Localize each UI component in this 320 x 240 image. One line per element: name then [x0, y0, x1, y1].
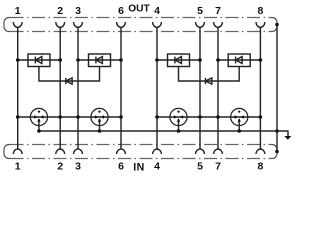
diode V6 (right link): [205, 78, 211, 84]
earth ground symbol: [284, 136, 291, 140]
pin number labels bottom: [15, 161, 264, 173]
svg-text:7: 7: [215, 5, 221, 17]
suppressor diode box V4 (pins 7-8): [228, 54, 250, 67]
junction dots row y=60: [16, 58, 262, 62]
wire line 8 (pin 8 through): [259, 27, 261, 149]
wire line 7 (pin 7 through): [217, 27, 219, 149]
svg-text:1: 1: [15, 5, 21, 17]
svg-text:3: 3: [75, 161, 81, 173]
terminal socket 4 top: [153, 22, 162, 27]
svg-text:2: 2: [57, 161, 63, 173]
svg-text:3: 3: [75, 5, 81, 17]
suppressor diode box V3 (pins 4-5): [168, 54, 190, 67]
terminal socket 2 bottom: [56, 149, 65, 154]
wire line 2 (pin 2 through): [59, 27, 61, 149]
svg-text:7: 7: [215, 161, 221, 173]
connector housing OUT (top dash-dot stadium): [4, 18, 277, 32]
svg-text:OUT: OUT: [128, 4, 150, 15]
connector housing IN (bottom dash-dot stadium): [4, 145, 277, 159]
terminal socket 2 top: [56, 22, 65, 27]
svg-text:6: 6: [118, 5, 124, 17]
svg-text:5: 5: [197, 161, 203, 173]
terminal socket 8 bottom: [256, 149, 265, 154]
suppressor diode box V1 (pins 1-2): [28, 54, 50, 67]
wire gas tube row 1-6: [18, 116, 121, 118]
wire link right group: [179, 67, 240, 82]
terminal socket 1 bottom: [13, 149, 22, 154]
wire link left group: [39, 67, 100, 82]
wire suppressor row 4-5: [157, 59, 200, 61]
svg-text:6: 6: [118, 161, 124, 173]
terminal socket 8 top: [256, 22, 265, 27]
wire suppressor row 3-6: [78, 59, 121, 61]
gas discharge tube F1: [30, 108, 47, 131]
terminal socket 4 bottom: [153, 149, 162, 154]
pin number labels top: [15, 5, 264, 17]
wire earth bus: [39, 130, 277, 132]
wire shield/earth vertical: [276, 25, 278, 152]
svg-text:5: 5: [197, 5, 203, 17]
wire gas tube row 4-8: [157, 116, 260, 118]
svg-text:2: 2: [57, 5, 63, 17]
wire suppressor row 7-8: [218, 59, 260, 61]
terminal socket 7 bottom: [214, 149, 223, 154]
wire line 4 (pin 4 through): [156, 27, 158, 149]
wire line 3 (pin 3 through): [77, 27, 79, 149]
svg-text:8: 8: [257, 161, 263, 173]
svg-text:1: 1: [15, 161, 21, 173]
gas discharge tube F4: [231, 108, 248, 131]
gas discharge tube F2: [91, 108, 108, 131]
wire line 1 (pin 1 through): [17, 27, 19, 149]
terminal socket 1 top: [13, 22, 22, 27]
gas discharge tube F3: [170, 108, 187, 131]
terminal socket 7 top: [214, 22, 223, 27]
terminal socket 5 bottom: [196, 149, 205, 154]
terminal socket 6 top: [117, 22, 126, 27]
terminal socket 6 bottom: [117, 149, 126, 154]
wire earth branch: [277, 131, 288, 136]
junction dots shield line: [275, 23, 279, 154]
wire suppressor row 1-2: [18, 59, 61, 61]
junction dots earth bus: [37, 129, 279, 133]
wire line 5 (pin 5 through): [199, 27, 201, 149]
suppressor diode box V2 (pins 3-6): [89, 54, 111, 67]
wire line 6 (pin 6 through): [120, 27, 122, 149]
terminal socket 3 top: [74, 22, 83, 27]
svg-text:4: 4: [154, 5, 160, 17]
svg-text:IN: IN: [133, 161, 144, 173]
terminal socket 5 top: [196, 22, 205, 27]
terminal socket 3 bottom: [74, 149, 83, 154]
diode V5 (left link): [66, 78, 72, 84]
junction dots row y=117: [16, 115, 262, 119]
svg-text:4: 4: [154, 161, 160, 173]
svg-text:8: 8: [257, 5, 263, 17]
